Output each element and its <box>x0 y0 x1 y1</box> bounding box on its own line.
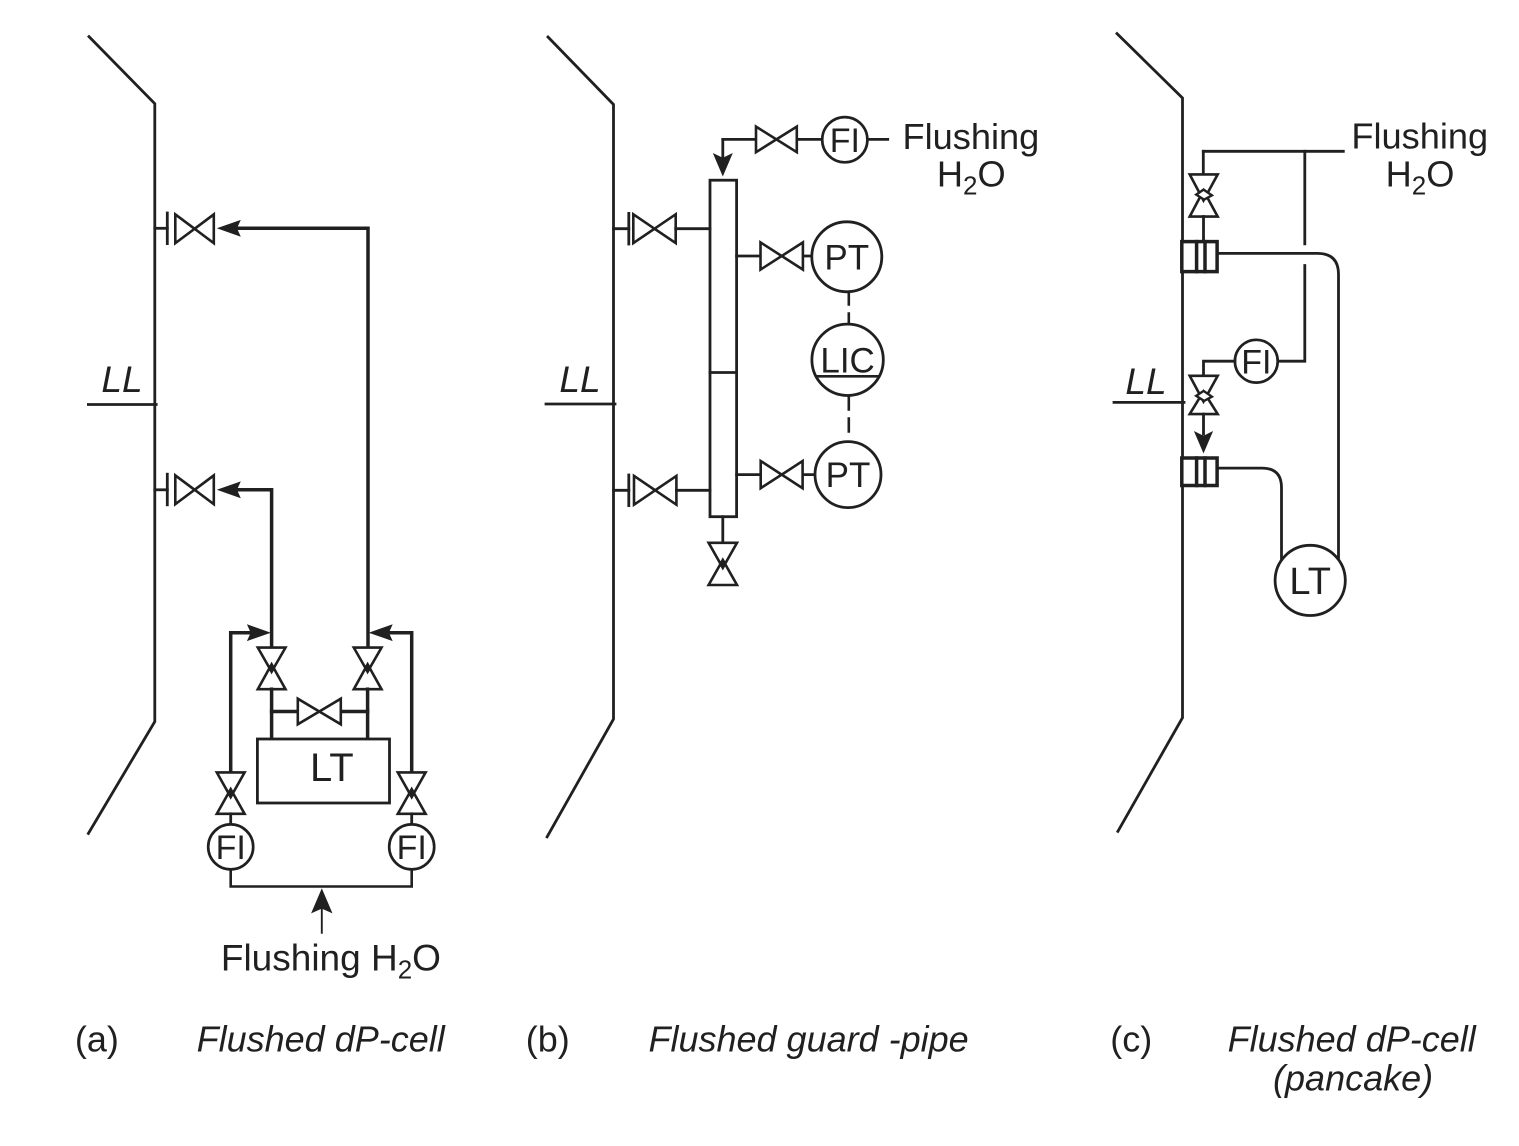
svg-text:Flushing: Flushing <box>903 116 1040 157</box>
svg-text:FI: FI <box>397 829 427 867</box>
valve flush left (a) body <box>217 772 245 813</box>
svg-text:Flushed guard -pipe: Flushed guard -pipe <box>648 1019 968 1060</box>
valve upper tap (a) stub <box>155 227 168 230</box>
arrow into lower valve (a) <box>217 481 241 498</box>
svg-text:(pancake): (pancake) <box>1273 1057 1433 1098</box>
valve upper (c) stem diamond <box>1196 190 1212 200</box>
valve upper wall tap (b) body <box>633 214 675 243</box>
pressure transmitter PT upper (b) circle <box>812 222 882 292</box>
svg-text:FI: FI <box>1241 344 1271 382</box>
svg-text:LL: LL <box>101 359 142 400</box>
svg-text:LT: LT <box>1289 561 1331 603</box>
valve equalizer (a) body <box>298 699 341 725</box>
pressure transmitter PT lower (b) circle <box>815 442 881 508</box>
arrow flushing branch left (a) <box>247 624 271 641</box>
wire flushing down leg (b) <box>721 139 724 157</box>
vessel wall (a) <box>88 37 154 834</box>
node LL (c) level line <box>1114 401 1184 404</box>
svg-text:PT: PT <box>824 238 869 277</box>
valve isolation left (a) body <box>258 648 286 690</box>
valve lower (c) stem diamond <box>1196 391 1212 401</box>
valve lower wall tap (b) stub <box>614 489 629 492</box>
valve upper tap (a) body <box>175 214 214 243</box>
flow indicator FI right (a) circle <box>389 824 434 869</box>
svg-text:LT: LT <box>310 746 354 790</box>
wire flushing header (c) <box>1203 150 1343 153</box>
svg-text:(b): (b) <box>526 1019 570 1060</box>
valve upper tap (a) flange tick <box>166 213 169 244</box>
svg-text:Flushing H2O: Flushing H2O <box>221 938 441 985</box>
valve lower wall tap (b) flange tick <box>627 475 630 506</box>
valve drain (b) body <box>709 543 737 585</box>
wire FI to lower valve (c) <box>1204 361 1235 376</box>
arrow into guard pipe (b) <box>713 153 733 177</box>
wire pipe to upper PT (b) <box>737 255 813 258</box>
level controller LIC (b) circle <box>812 324 883 395</box>
svg-text:H2O: H2O <box>937 154 1006 201</box>
arrow flushing branch right (a) <box>369 624 393 641</box>
guard pipe (b) body <box>710 180 737 517</box>
level transmitter LT (c) circle <box>1275 545 1345 615</box>
signal line PT upper to LIC (b) <box>847 293 850 324</box>
level controller LIC (b) panel chord <box>816 375 879 378</box>
wire upper valve to seal flange (c) <box>1202 217 1205 242</box>
valve lower wall tap (b) body <box>634 476 676 505</box>
wire lower wall tap to pipe (b) <box>676 489 710 492</box>
wire upper wall tap to pipe (b) <box>676 227 710 230</box>
diaphragm seal lower (c) body <box>1182 458 1217 486</box>
valve lower tap (a) flange tick <box>166 474 169 505</box>
wire left valve to LT (a) <box>270 689 274 739</box>
wire upper valve to down run (a) <box>238 228 369 647</box>
valve isolation right (a) body <box>354 648 382 690</box>
valve lower tap (a) stub <box>155 488 168 491</box>
guard pipe (b) section divider <box>710 371 737 374</box>
flow indicator FI left (a) circle <box>208 824 253 869</box>
wire flushing supply header (a) <box>231 869 412 886</box>
valve upper (c) body <box>1190 174 1218 216</box>
wire seal upper to LT capillary (c) <box>1217 253 1338 560</box>
wire right valve to LT (a) <box>366 689 370 739</box>
wire left flush valve to FI (a) <box>229 814 232 825</box>
valve lower tap (a) body <box>175 475 214 504</box>
arrow into upper valve (a) <box>217 220 241 237</box>
svg-text:LL: LL <box>1125 361 1166 402</box>
wire right flush valve to FI (a) <box>410 814 413 825</box>
valve lower PT (b) body <box>761 461 803 488</box>
svg-text:FI: FI <box>830 122 860 160</box>
valve upper wall tap (b) flange tick <box>627 213 630 244</box>
diaphragm seal upper (c) body <box>1182 242 1217 272</box>
wire header to upper valve (c) <box>1202 151 1205 174</box>
wire flushing supply arrow shaft (a) <box>321 908 323 933</box>
svg-text:(a): (a) <box>75 1019 119 1060</box>
wire pipe to lower PT (b) <box>737 473 815 476</box>
wire flushing branch down (c) <box>1278 151 1305 361</box>
arrow flushing supply (a) <box>311 888 332 913</box>
svg-text:LIC: LIC <box>820 341 874 380</box>
svg-text:H2O: H2O <box>1386 154 1455 201</box>
wire equalizer line (a) <box>272 710 368 714</box>
svg-text:Flushed dP-cell: Flushed dP-cell <box>197 1019 446 1060</box>
arrow into lower seal (c) <box>1194 431 1213 454</box>
signal line LIC to PT lower (b) <box>847 397 850 441</box>
vessel wall (b) <box>547 37 613 837</box>
svg-text:Flushing: Flushing <box>1351 115 1488 156</box>
svg-text:(c): (c) <box>1110 1019 1152 1060</box>
svg-text:PT: PT <box>826 456 871 495</box>
valve flush right (a) body <box>398 772 426 813</box>
wire pipe to drain valve (b) <box>721 517 724 543</box>
flow indicator FI (b) circle <box>822 117 867 162</box>
svg-text:FI: FI <box>216 829 246 867</box>
wire flushing inlet (b) <box>723 138 888 141</box>
vessel wall (c) <box>1117 34 1183 832</box>
wire lower valve to down run (a) <box>238 490 272 648</box>
valve lower (c) body <box>1190 376 1218 414</box>
valve flushing (b) body <box>756 127 797 153</box>
node LL (a) level line <box>88 403 156 406</box>
flow indicator FI (c) circle <box>1235 340 1278 383</box>
svg-text:LL: LL <box>559 359 600 400</box>
wire lower valve to arrow (c) <box>1202 414 1205 434</box>
wire seal lower to LT capillary (c) <box>1217 468 1281 560</box>
valve upper PT (b) body <box>761 242 803 269</box>
valve upper wall tap (b) stub <box>614 227 629 230</box>
wire flushing branch left (a) <box>231 633 252 773</box>
node LL (b) level line <box>546 403 615 406</box>
dP transmitter LT (a) box <box>257 739 389 803</box>
wire flushing branch right (a) <box>388 633 412 773</box>
svg-text:Flushed dP-cell: Flushed dP-cell <box>1228 1019 1477 1060</box>
